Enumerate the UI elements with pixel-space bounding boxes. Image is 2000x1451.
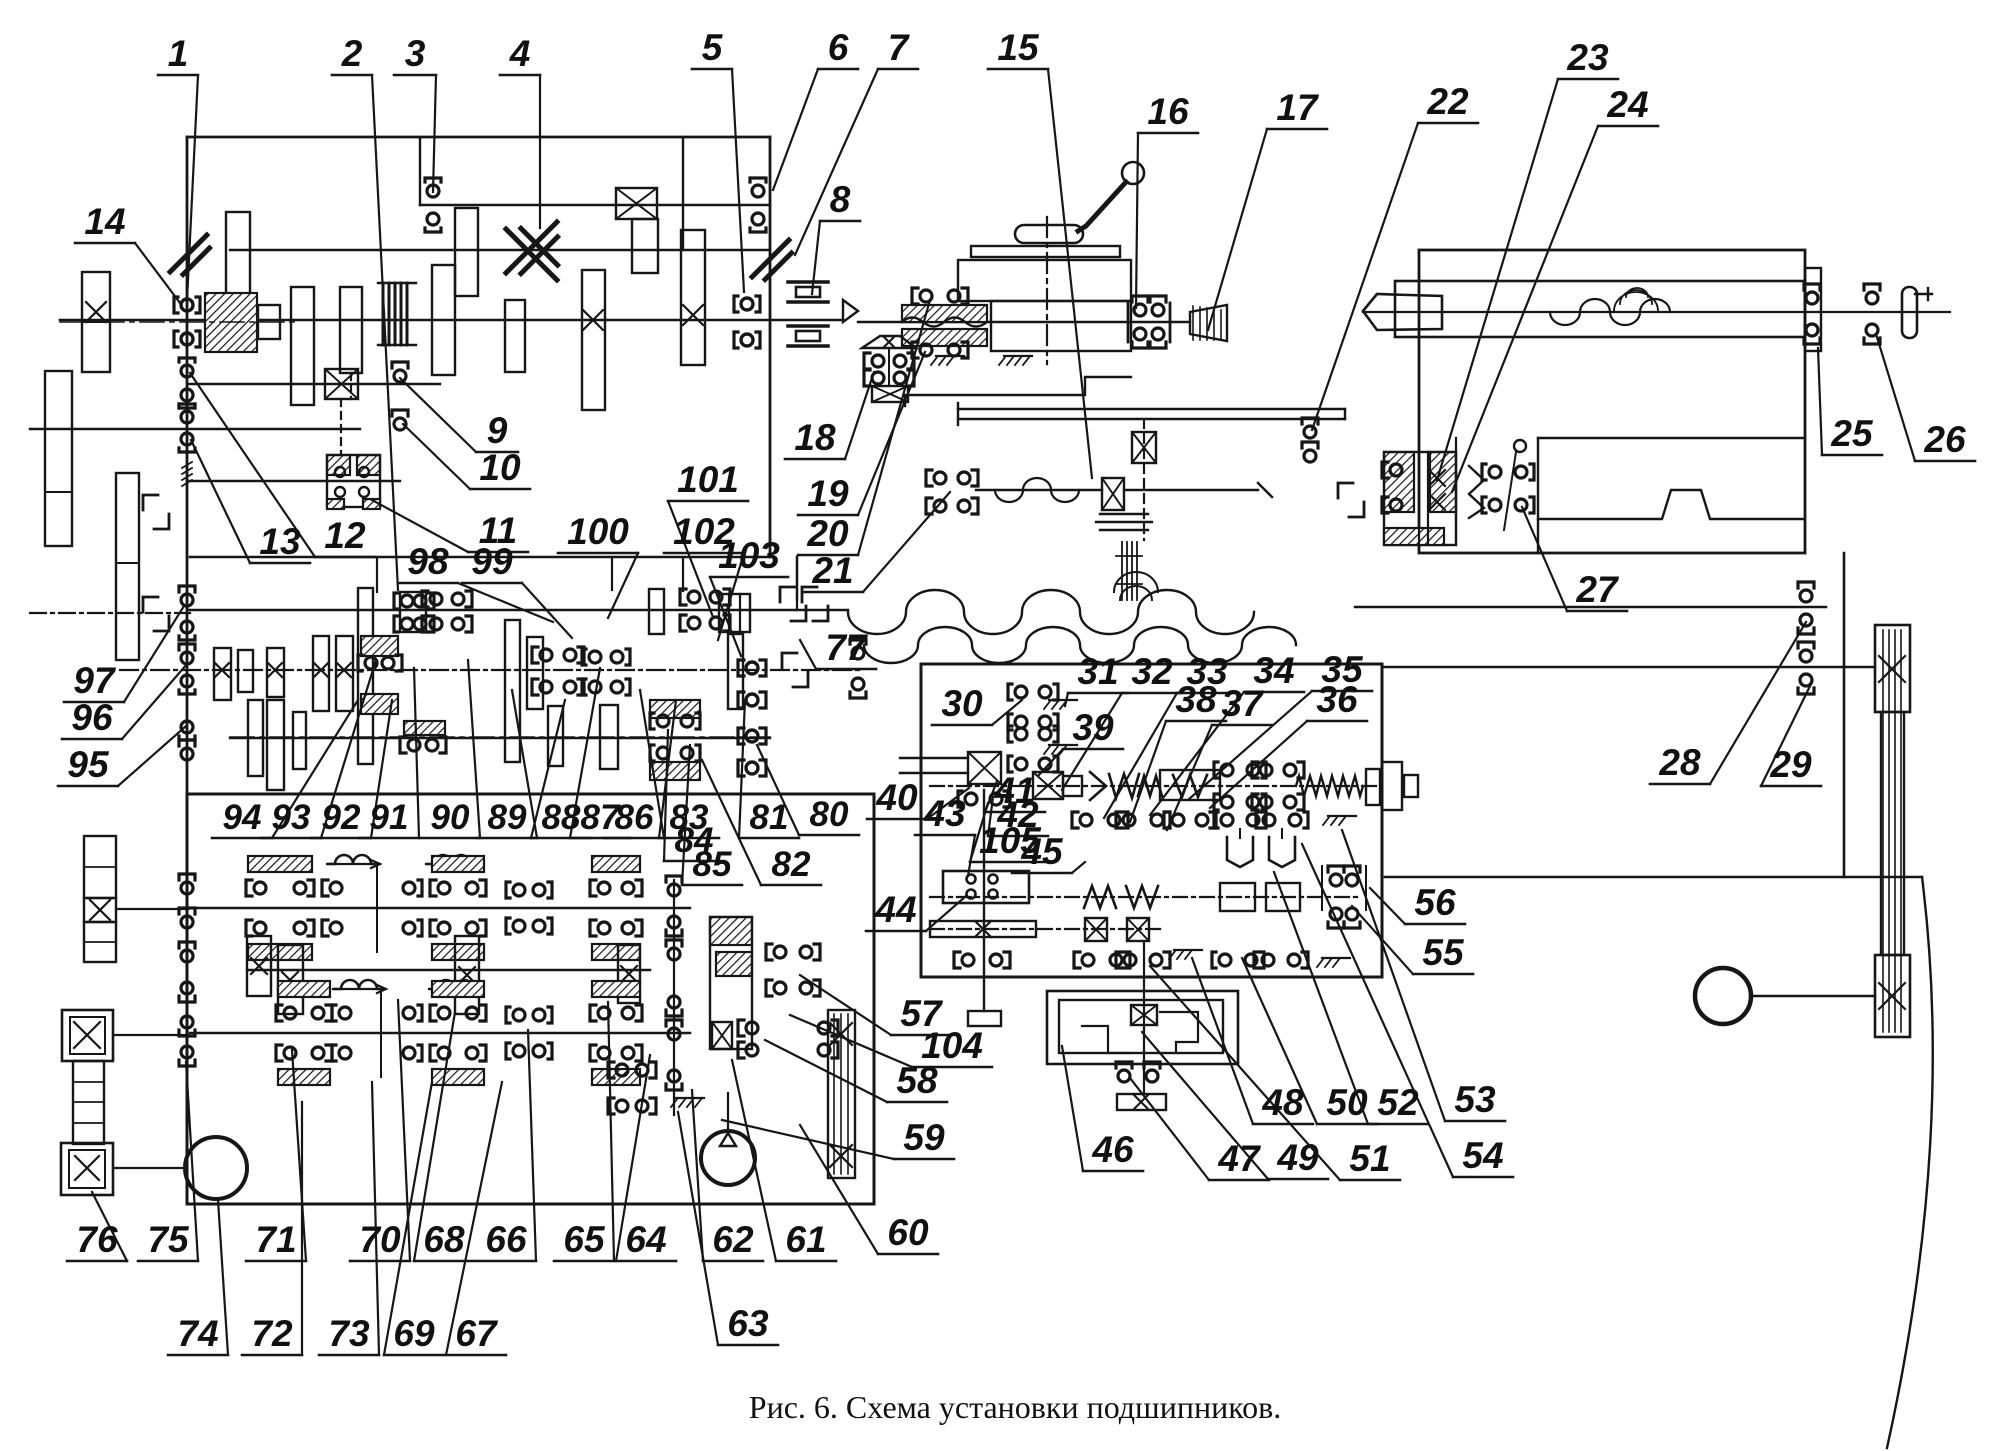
svg-text:46: 46 — [1091, 1129, 1134, 1170]
svg-text:21: 21 — [811, 550, 853, 591]
svg-text:14: 14 — [84, 201, 125, 242]
svg-text:6: 6 — [828, 27, 849, 68]
svg-text:90: 90 — [431, 798, 470, 837]
svg-text:45: 45 — [1020, 831, 1064, 872]
svg-text:50: 50 — [1326, 1082, 1368, 1123]
svg-text:27: 27 — [1575, 569, 1620, 610]
svg-text:30: 30 — [941, 683, 983, 724]
svg-text:Рис. 6. Схема установки подши: Рис. 6. Схема установки подшипников. — [749, 1389, 1281, 1425]
svg-text:82: 82 — [772, 845, 811, 884]
svg-text:66: 66 — [485, 1219, 527, 1260]
svg-text:70: 70 — [359, 1219, 401, 1260]
svg-text:8: 8 — [830, 179, 851, 220]
svg-text:71: 71 — [255, 1219, 296, 1260]
svg-text:38: 38 — [1175, 679, 1217, 720]
svg-text:7: 7 — [888, 27, 911, 68]
svg-text:55: 55 — [1422, 932, 1465, 973]
svg-text:63: 63 — [727, 1303, 769, 1344]
svg-text:3: 3 — [405, 33, 426, 74]
svg-text:48: 48 — [1261, 1082, 1304, 1123]
svg-text:77: 77 — [825, 627, 869, 668]
svg-text:1: 1 — [168, 33, 189, 74]
svg-text:86: 86 — [615, 798, 654, 837]
svg-text:49: 49 — [1276, 1137, 1319, 1178]
svg-text:39: 39 — [1072, 707, 1114, 748]
svg-text:44: 44 — [874, 889, 916, 930]
svg-text:56: 56 — [1414, 882, 1456, 923]
svg-text:85: 85 — [693, 845, 732, 884]
svg-text:24: 24 — [1606, 84, 1648, 125]
svg-text:12: 12 — [324, 515, 366, 556]
svg-text:52: 52 — [1377, 1082, 1419, 1123]
svg-text:76: 76 — [76, 1219, 118, 1260]
svg-text:72: 72 — [251, 1313, 293, 1354]
svg-text:64: 64 — [625, 1219, 666, 1260]
svg-text:97: 97 — [73, 660, 117, 701]
svg-text:13: 13 — [259, 521, 301, 562]
svg-text:99: 99 — [471, 541, 513, 582]
svg-text:68: 68 — [423, 1219, 465, 1260]
svg-text:80: 80 — [810, 795, 849, 834]
svg-text:75: 75 — [147, 1219, 190, 1260]
svg-text:95: 95 — [67, 744, 110, 785]
svg-text:22: 22 — [1426, 81, 1469, 122]
svg-text:54: 54 — [1462, 1135, 1503, 1176]
svg-text:26: 26 — [1923, 419, 1966, 460]
svg-text:4: 4 — [509, 33, 531, 74]
svg-text:47: 47 — [1217, 1138, 1262, 1179]
svg-text:74: 74 — [177, 1313, 218, 1354]
svg-text:59: 59 — [903, 1117, 945, 1158]
svg-text:51: 51 — [1349, 1138, 1390, 1179]
svg-text:62: 62 — [712, 1219, 754, 1260]
svg-text:2: 2 — [341, 33, 363, 74]
svg-text:81: 81 — [750, 798, 789, 837]
svg-text:5: 5 — [702, 27, 724, 68]
svg-text:31: 31 — [1077, 651, 1118, 692]
svg-text:10: 10 — [479, 447, 521, 488]
svg-text:58: 58 — [896, 1060, 938, 1101]
svg-text:60: 60 — [887, 1212, 929, 1253]
svg-text:32: 32 — [1131, 651, 1173, 692]
svg-text:91: 91 — [370, 798, 409, 837]
svg-text:9: 9 — [487, 410, 508, 451]
svg-text:37: 37 — [1221, 683, 1265, 724]
svg-text:53: 53 — [1454, 1079, 1496, 1120]
svg-text:15: 15 — [997, 27, 1040, 68]
svg-text:16: 16 — [1147, 91, 1189, 132]
svg-text:101: 101 — [677, 459, 739, 500]
svg-text:100: 100 — [567, 511, 629, 552]
svg-text:98: 98 — [407, 541, 449, 582]
svg-text:89: 89 — [488, 798, 527, 837]
svg-text:103: 103 — [718, 535, 780, 576]
svg-text:40: 40 — [875, 777, 918, 818]
svg-text:92: 92 — [322, 798, 361, 837]
svg-text:73: 73 — [328, 1313, 370, 1354]
svg-text:23: 23 — [1566, 37, 1609, 78]
svg-text:28: 28 — [1658, 742, 1701, 783]
svg-text:93: 93 — [272, 798, 311, 837]
svg-text:17: 17 — [1276, 87, 1320, 128]
svg-text:29: 29 — [1769, 744, 1812, 785]
svg-text:96: 96 — [71, 697, 113, 738]
svg-text:69: 69 — [393, 1313, 435, 1354]
svg-text:94: 94 — [223, 798, 262, 837]
svg-text:65: 65 — [563, 1219, 606, 1260]
svg-text:20: 20 — [806, 513, 849, 554]
svg-text:61: 61 — [785, 1219, 826, 1260]
svg-text:67: 67 — [455, 1313, 499, 1354]
svg-text:19: 19 — [807, 473, 849, 514]
svg-text:18: 18 — [794, 417, 836, 458]
svg-text:25: 25 — [1830, 413, 1874, 454]
svg-text:36: 36 — [1316, 679, 1358, 720]
svg-text:43: 43 — [923, 793, 966, 834]
